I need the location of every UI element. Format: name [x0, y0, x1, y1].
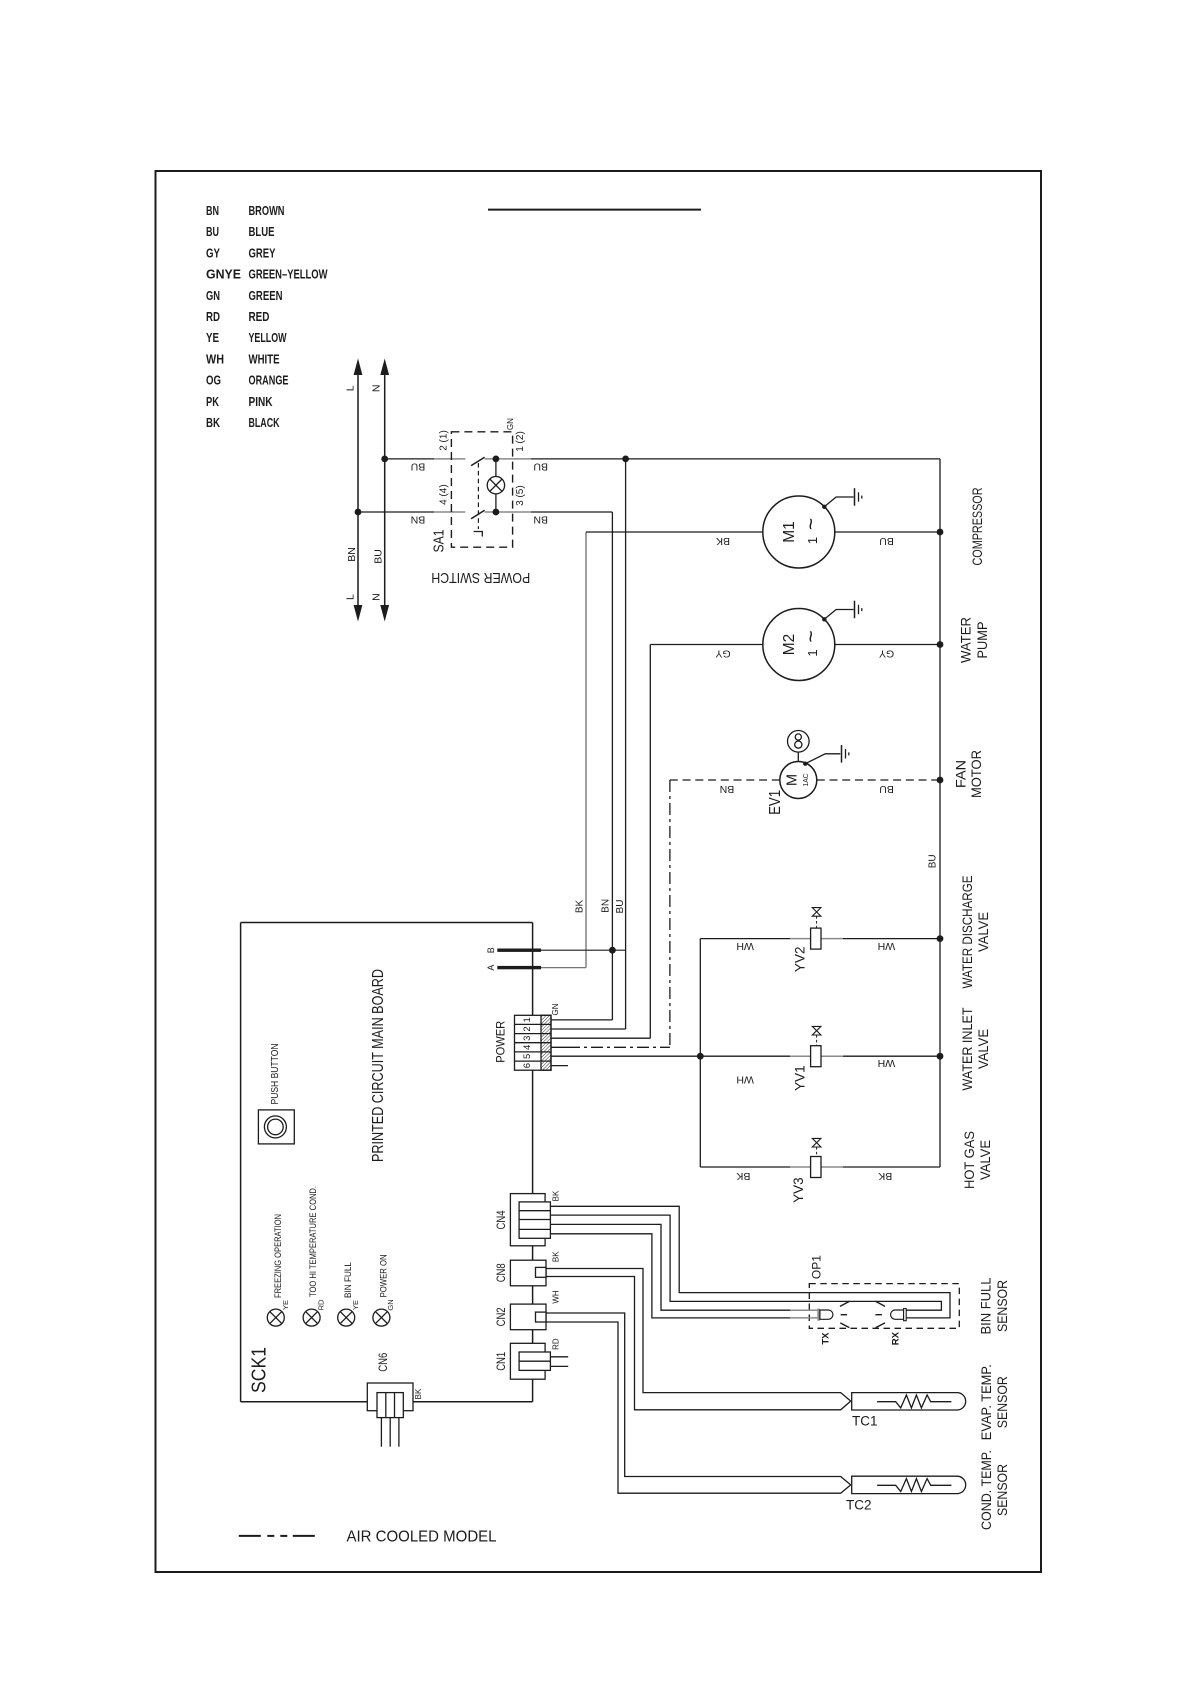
svg-text:3 (5): 3 (5) [515, 485, 526, 506]
LED TOO HI TEMPERATURE COND. (RD) [303, 1186, 325, 1326]
label WATER PUMP [959, 617, 990, 663]
svg-text:2: 2 [522, 1026, 533, 1031]
svg-text:YE: YE [351, 1300, 360, 1310]
svg-text:PRINTED CIRCUIT MAIN BOARD: PRINTED CIRCUIT MAIN BOARD [370, 969, 387, 1162]
svg-text:GREY: GREY [249, 246, 276, 260]
svg-text:M: M [785, 774, 801, 786]
node L : supply line L with arrows [344, 359, 362, 622]
bus wire BU right side [927, 459, 940, 1167]
svg-text:YV1: YV1 [793, 1065, 808, 1091]
svg-text:BK: BK [206, 416, 220, 430]
svg-text:RD: RD [206, 310, 220, 324]
svg-text:BU: BU [411, 460, 426, 472]
wire WH : YV1 row water inlet valve (POWER pin 5) [551, 1053, 943, 1086]
fan motor EV1 [767, 762, 817, 815]
wire : POWER pin 6 stub [551, 1065, 568, 1067]
svg-text:BIN FULL: BIN FULL [343, 1262, 353, 1298]
svg-text:SENSOR: SENSOR [995, 1280, 1010, 1332]
svg-text:WH: WH [206, 352, 224, 366]
connector CN2 [496, 1290, 560, 1330]
svg-text:~: ~ [800, 518, 823, 530]
svg-text:BK: BK [716, 535, 730, 547]
svg-text:BIN FULL: BIN FULL [979, 1277, 994, 1334]
wire : POWER pin 2 to BU [551, 1028, 626, 1030]
svg-text:1: 1 [522, 1017, 533, 1022]
svg-text:VALVE: VALVE [976, 912, 991, 952]
svg-text:RD: RD [551, 1338, 560, 1350]
svg-text:YE: YE [281, 1300, 290, 1310]
wire WH : YV2 row water discharge valve [700, 935, 943, 952]
motor M2 water pump [763, 609, 835, 681]
svg-text:WHITE: WHITE [249, 352, 280, 366]
svg-text:BN: BN [720, 783, 735, 795]
svg-text:BK: BK [551, 1190, 560, 1201]
label EVAP. TEMP. SENSOR [979, 1364, 1010, 1440]
svg-text:BU: BU [879, 783, 894, 795]
svg-text:BU: BU [206, 225, 219, 239]
fan blade symbol [788, 731, 810, 762]
pad A [486, 965, 586, 971]
svg-text:ORANGE: ORANGE [249, 374, 289, 388]
svg-text:PINK: PINK [249, 395, 273, 409]
svg-text:SENSOR: SENSOR [995, 1376, 1010, 1428]
sensor TC2 cond. temp. [846, 1476, 966, 1512]
svg-text:L: L [344, 594, 356, 600]
svg-text:BU: BU [927, 854, 938, 868]
svg-text:A: A [486, 965, 496, 971]
wire : valve feed left vertical [699, 939, 701, 1167]
svg-text:GREEN–YELLOW: GREEN–YELLOW [249, 268, 328, 282]
svg-text:CN6: CN6 [378, 1353, 390, 1372]
wire GY : M2 right lead [835, 641, 944, 659]
svg-text:FREEZING OPERATION: FREEZING OPERATION [273, 1214, 283, 1298]
valve YV3 [791, 1138, 821, 1202]
wire BN vertical : switch to POWER pin 1 [600, 512, 612, 1020]
svg-text:YE: YE [206, 331, 219, 345]
svg-text:B: B [486, 947, 496, 953]
connector CN4 [496, 1190, 560, 1246]
svg-text:L: L [344, 385, 356, 391]
svg-text:BU: BU [879, 535, 894, 547]
LED BIN FULL (YE) [338, 1262, 360, 1326]
svg-text:BN: BN [206, 204, 219, 218]
wire BU : N line to switch to bus [381, 456, 940, 473]
wire BU dashed : EV1 right lead [817, 777, 944, 795]
svg-text:EVAP. TEMP.: EVAP. TEMP. [979, 1364, 994, 1440]
svg-text:WH: WH [878, 1057, 896, 1069]
legend AIR COOLED MODEL dash-dot sample [239, 1529, 497, 1546]
wire BK vertical : M1 to pad A [575, 532, 587, 968]
svg-text:SENSOR: SENSOR [995, 1464, 1010, 1516]
svg-text:BK: BK [414, 1388, 423, 1399]
LED POWER ON (GN) [373, 1254, 395, 1326]
wire GY : M2 left lead and run to POWER pin 3 [551, 645, 763, 1039]
svg-text:VALVE: VALVE [978, 1140, 993, 1180]
svg-text:~: ~ [800, 630, 823, 642]
svg-text:4 (4): 4 (4) [439, 484, 450, 505]
printed circuit main board outline [241, 923, 533, 1402]
svg-text:WH: WH [736, 1074, 754, 1086]
svg-text:BK: BK [551, 1251, 560, 1262]
ground at EV1 [803, 745, 849, 766]
svg-text:BN: BN [600, 899, 611, 913]
wire BN : L line to switch, corner down [355, 509, 613, 526]
svg-text:COND. TEMP.: COND. TEMP. [979, 1450, 994, 1530]
wire dash-dot : fan motor BN to POWER pin 4 (air cooled model) [551, 780, 670, 1047]
svg-text:1: 1 [805, 537, 820, 544]
valve YV2 [793, 908, 821, 972]
lamp inside SA1 [487, 477, 504, 494]
svg-text:GN: GN [206, 289, 220, 303]
svg-text:RED: RED [249, 310, 270, 324]
ground at M2 [822, 601, 862, 622]
svg-text:GN: GN [551, 1003, 560, 1015]
wire : CN2 pin to TC2 upper lead [546, 1313, 851, 1485]
svg-text:WATER: WATER [959, 617, 974, 663]
push button [258, 1044, 294, 1144]
wire BU vertical : junction to POWER pin 2 [615, 459, 626, 1029]
svg-text:TX: TX [820, 1332, 831, 1345]
svg-text:OG: OG [206, 374, 221, 388]
svg-text:BK: BK [575, 900, 586, 914]
svg-text:6: 6 [522, 1063, 533, 1068]
svg-text:BU: BU [533, 460, 548, 472]
connector CN8 [496, 1251, 560, 1286]
svg-text:POWER SWITCH: POWER SWITCH [431, 569, 530, 586]
svg-text:PUSH BUTTON: PUSH BUTTON [270, 1044, 281, 1105]
svg-text:GN: GN [506, 418, 515, 430]
svg-text:3: 3 [522, 1036, 533, 1041]
legend: wire colour codes [206, 204, 328, 430]
svg-text:WATER INLET: WATER INLET [960, 1008, 975, 1091]
svg-text:CN4: CN4 [496, 1210, 508, 1229]
wire : CN8 pin to TC1 upper lead [546, 1269, 851, 1402]
svg-text:HOT GAS: HOT GAS [962, 1131, 977, 1189]
wire : CN4 pin 1 to OP1/RX outer loop [550, 1206, 950, 1318]
svg-text:BK: BK [878, 1170, 892, 1182]
svg-text:VALVE: VALVE [976, 1029, 991, 1069]
svg-text:BU: BU [615, 900, 626, 914]
svg-text:RX: RX [890, 1331, 901, 1345]
label WATER INLET VALVE [960, 1008, 991, 1091]
wire : CN2 pin to TC2 lower lead [546, 1322, 851, 1493]
svg-text:AIR COOLED MODEL: AIR COOLED MODEL [347, 1529, 497, 1546]
power switch SA1 [431, 418, 531, 586]
connector POWER (terminal block pins 6 5 4 3 2 1) [496, 1003, 561, 1070]
svg-text:GNYE: GNYE [206, 268, 241, 282]
svg-text:SCK1: SCK1 [249, 1347, 271, 1393]
wire : CN4 pin 4 to OP1/TX lower lead [550, 1234, 790, 1318]
svg-text:YELLOW: YELLOW [249, 331, 287, 345]
motor M1 compressor [763, 496, 835, 568]
svg-text:BN: BN [533, 513, 548, 525]
svg-text:YV3: YV3 [791, 1177, 806, 1203]
svg-text:GY: GY [206, 246, 221, 260]
svg-text:WH: WH [736, 940, 754, 952]
svg-text:GY: GY [715, 647, 730, 659]
wire : CN4 pin 3 to OP1/TX upper lead [550, 1224, 790, 1310]
svg-text:YV2: YV2 [793, 947, 808, 973]
svg-text:BLUE: BLUE [249, 225, 275, 239]
RX receiver LED [875, 1301, 906, 1345]
svg-text:PK: PK [206, 395, 219, 409]
wire BU : M1 right lead [835, 529, 944, 547]
svg-text:WH: WH [551, 1290, 560, 1304]
svg-text:TOO HI TEMPERATURE COND.: TOO HI TEMPERATURE COND. [308, 1186, 318, 1297]
svg-text:M2: M2 [781, 634, 798, 656]
svg-text:1: 1 [805, 649, 820, 656]
svg-text:CN1: CN1 [496, 1352, 508, 1371]
label BIN FULL SENSOR [979, 1277, 1010, 1334]
svg-text:OP1: OP1 [810, 1255, 824, 1279]
svg-text:SA1: SA1 [431, 530, 448, 553]
svg-text:COMPRESSOR: COMPRESSOR [970, 487, 985, 565]
title line [488, 209, 701, 211]
svg-text:BROWN: BROWN [249, 204, 285, 218]
svg-text:GREEN: GREEN [249, 289, 283, 303]
svg-text:5: 5 [522, 1054, 533, 1059]
svg-text:1 (2): 1 (2) [515, 431, 526, 452]
svg-text:4: 4 [522, 1045, 533, 1050]
connector CN6 [367, 1353, 423, 1447]
svg-text:GY: GY [879, 647, 894, 659]
svg-text:GN: GN [386, 1299, 395, 1310]
svg-text:BN: BN [346, 547, 358, 562]
svg-text:WATER DISCHARGE: WATER DISCHARGE [960, 876, 975, 989]
svg-text:CN2: CN2 [496, 1307, 508, 1326]
svg-text:RD: RD [316, 1299, 325, 1310]
svg-text:N: N [370, 593, 382, 601]
svg-text:BK: BK [736, 1170, 750, 1182]
label HOT GAS VALVE [962, 1131, 993, 1189]
svg-text:N: N [370, 385, 382, 393]
svg-text:FAN: FAN [954, 760, 969, 788]
svg-text:BU: BU [372, 549, 384, 564]
svg-text:2 (1): 2 (1) [439, 430, 450, 451]
svg-text:POWER ON: POWER ON [378, 1254, 388, 1297]
svg-text:CN8: CN8 [496, 1263, 508, 1282]
svg-text:BLACK: BLACK [249, 416, 280, 430]
TX emitter LED [790, 1301, 849, 1344]
svg-text:BN: BN [411, 513, 426, 525]
svg-text:PUMP: PUMP [975, 622, 990, 659]
LED FREEZING OPERATION (YE) [267, 1214, 290, 1326]
sensor TC1 evap. temp. [852, 1393, 966, 1429]
svg-text:WH: WH [878, 940, 896, 952]
connector CN1 [496, 1338, 568, 1379]
svg-text:MOTOR: MOTOR [969, 750, 984, 798]
svg-text:POWER: POWER [496, 1021, 508, 1063]
wire : POWER pin 1 to BN [551, 1019, 612, 1021]
wire : CN8 pin to TC1 lower lead [546, 1277, 851, 1410]
label COND. TEMP. SENSOR [979, 1450, 1010, 1530]
label FAN MOTOR [954, 750, 984, 798]
label WATER DISCHARGE VALVE [960, 876, 991, 989]
wire : CN4 pin 2 to OP1/RX inner loop [550, 1215, 941, 1310]
svg-text:M1: M1 [781, 521, 798, 543]
svg-text:1AC: 1AC [801, 773, 810, 787]
svg-text:EV1: EV1 [767, 790, 784, 815]
valve YV1 [793, 1026, 821, 1090]
svg-text:TC2: TC2 [846, 1498, 872, 1513]
svg-text:TC1: TC1 [852, 1414, 878, 1429]
wire BN dashed : EV1 left lead [670, 780, 780, 795]
bin full sensor OP1 box [809, 1255, 959, 1329]
wire BK : M1 left lead [586, 532, 763, 547]
pad B [486, 947, 626, 954]
ground at M1 [822, 488, 862, 509]
wire BK : YV3 row hot gas valve [700, 1167, 940, 1182]
node N : supply line N with arrows [370, 359, 389, 622]
